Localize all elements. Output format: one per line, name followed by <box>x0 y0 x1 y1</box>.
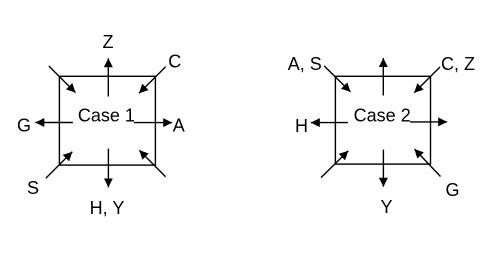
svg-text:A: A <box>173 116 185 136</box>
wire: Case 1 top arrow (out) <box>107 58 109 96</box>
svg-text:G: G <box>445 180 459 200</box>
wire: Case 2 bottom-right diagonal arrow (in) <box>414 149 440 177</box>
svg-text:S: S <box>27 178 39 198</box>
node C, Z <box>441 54 475 74</box>
wire: Case 2 left arrow (out) <box>311 122 348 124</box>
wire: Case 2 right arrow (out) <box>410 121 447 123</box>
wire: Case 1 left arrow (out) <box>35 122 73 124</box>
node H <box>295 116 308 136</box>
label Case 2 <box>354 105 411 125</box>
wire: Case 1 top-right diagonal arrow (in) <box>139 67 166 94</box>
node A, S <box>288 54 322 74</box>
svg-text:C, Z: C, Z <box>441 54 475 74</box>
svg-text:H, Y: H, Y <box>90 198 125 218</box>
wire: Case 2 top-left diagonal arrow (in) <box>324 66 350 92</box>
square Case 1 <box>59 76 155 165</box>
node C <box>168 51 181 71</box>
svg-text:Y: Y <box>380 197 392 217</box>
node H, Y <box>90 198 125 218</box>
label Case 1 <box>78 105 135 125</box>
wire: Case 2 top-right diagonal arrow (in) <box>414 67 440 93</box>
svg-text:Case 1: Case 1 <box>78 105 135 125</box>
wire: Case 2 bottom-left diagonal arrow (in) <box>321 151 348 178</box>
node Y <box>380 197 392 217</box>
node S <box>27 178 39 198</box>
node G <box>17 116 31 136</box>
node A <box>173 116 185 136</box>
wire: Case 1 right arrow (out) <box>134 122 172 124</box>
wire: Case 2 top arrow (out) <box>382 58 384 96</box>
svg-text:G: G <box>17 116 31 136</box>
wire: Case 1 bottom-left diagonal arrow (in) <box>46 152 73 178</box>
svg-text:C: C <box>168 51 181 71</box>
wire: Case 2 bottom arrow (out) <box>382 150 384 187</box>
svg-text:A, S: A, S <box>288 54 322 74</box>
wire: Case 1 bottom arrow (out) <box>107 149 109 188</box>
node Z <box>103 32 114 52</box>
wire: Case 1 bottom-right diagonal arrow (in) <box>139 150 165 177</box>
wire: Case 1 top-left diagonal arrow (in) <box>49 66 76 93</box>
svg-text:H: H <box>295 116 308 136</box>
node G (Case 2) <box>445 180 459 200</box>
svg-text:Z: Z <box>103 32 114 52</box>
square Case 2 <box>335 76 430 164</box>
svg-text:Case 2: Case 2 <box>354 105 411 125</box>
